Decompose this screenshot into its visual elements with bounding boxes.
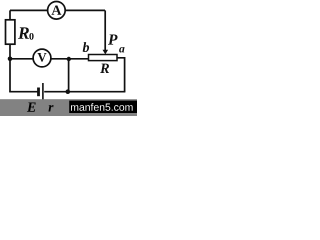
wire: bottom right segment bbox=[44, 91, 125, 93]
voltmeter V bbox=[33, 49, 51, 67]
battery negative plate (short thick) bbox=[37, 88, 40, 97]
background bbox=[0, 0, 137, 116]
battery positive plate (long thin) bbox=[42, 83, 44, 100]
label a bbox=[119, 47, 124, 53]
watermark text manfen5.com bbox=[71, 103, 133, 111]
wire: left vertical bbox=[9, 10, 11, 91]
rheostat R box bbox=[89, 55, 118, 61]
wire: bottom left segment bbox=[9, 91, 37, 93]
label P bbox=[108, 34, 118, 44]
label E bbox=[27, 103, 36, 112]
node: junction on bottom wire bbox=[66, 89, 71, 94]
wire: top run from left corner to slider corner bbox=[10, 9, 105, 11]
label R0 subscript 0 bbox=[29, 33, 33, 40]
label r bbox=[48, 105, 53, 111]
ammeter letter A bbox=[51, 5, 61, 14]
label b bbox=[83, 42, 89, 52]
wire: rheostat right terminal to right vertical bbox=[117, 58, 125, 92]
watermark black box bbox=[69, 101, 137, 113]
wire: voltmeter row bbox=[10, 58, 89, 60]
node: junction right of voltmeter bbox=[67, 57, 71, 61]
watermark gray band bbox=[0, 99, 137, 116]
voltmeter letter V bbox=[37, 53, 46, 62]
slider arrow head bbox=[103, 50, 109, 55]
label R bbox=[100, 64, 109, 73]
resistor R0 bbox=[6, 20, 15, 44]
node: junction at voltmeter left tap bbox=[8, 57, 13, 62]
label R0 R bbox=[18, 27, 29, 38]
wire: slider vertical drop bbox=[104, 10, 106, 50]
ammeter A bbox=[48, 2, 66, 20]
wire: middle vertical tap bbox=[68, 59, 70, 92]
